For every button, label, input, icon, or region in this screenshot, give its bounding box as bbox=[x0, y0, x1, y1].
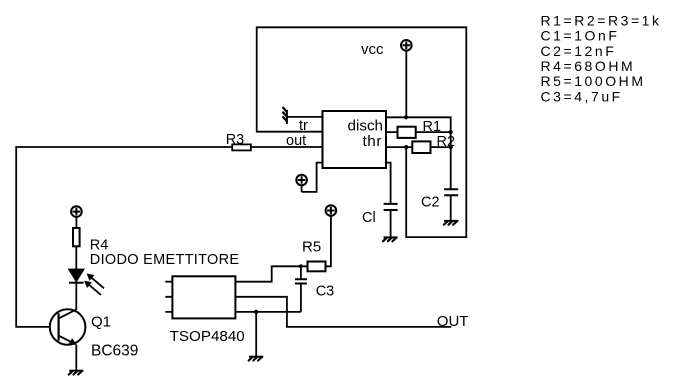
svg-text:R5=100OHM: R5=100OHM bbox=[541, 73, 646, 89]
svg-text:TSOP4840: TSOP4840 bbox=[170, 328, 245, 345]
node junction thr bbox=[404, 145, 408, 149]
svg-text:C3=4,7uF: C3=4,7uF bbox=[541, 88, 623, 104]
wire TSOP pin3 gnd rail bbox=[235, 311, 301, 313]
ground rotated (tr stub) bbox=[283, 108, 287, 124]
resistor R3 bbox=[232, 144, 251, 150]
node junction pin3 gnd bbox=[254, 310, 258, 314]
svg-text:C2: C2 bbox=[421, 195, 440, 211]
wire R3 to Q1 base bbox=[16, 147, 232, 327]
svg-text:vcc: vcc bbox=[361, 41, 384, 58]
wire thr to R2 bbox=[386, 146, 451, 148]
svg-text:Q1: Q1 bbox=[91, 314, 111, 331]
power vcc symbol bbox=[401, 40, 412, 117]
power plus symbol (555 vcc lower) bbox=[296, 175, 307, 192]
wire vcc rail pin8 bbox=[386, 117, 451, 189]
values text block bbox=[541, 12, 662, 104]
TSOP4840 receiver box bbox=[172, 276, 235, 318]
svg-text:BC639: BC639 bbox=[91, 343, 138, 360]
power plus symbol (R4 top) bbox=[71, 206, 82, 228]
ground C2 bbox=[444, 221, 459, 225]
resistor R2 bbox=[412, 141, 430, 153]
wire R4 to LED bbox=[75, 246, 77, 269]
svg-text:R2: R2 bbox=[437, 134, 456, 150]
wire TSOP pin2 to OUT bbox=[235, 297, 451, 327]
svg-text:out: out bbox=[286, 133, 306, 149]
svg-text:C1=1OnF: C1=1OnF bbox=[541, 28, 620, 44]
ground Q1 emitter bbox=[69, 371, 84, 375]
ground TSOP bbox=[249, 357, 264, 361]
transistor Q1 BC639 bbox=[50, 309, 86, 370]
svg-text:R3: R3 bbox=[226, 132, 245, 148]
capacitor C1 bbox=[384, 204, 398, 237]
wire disch to R1 bbox=[386, 131, 451, 133]
wire outer loop (tr to thr net) bbox=[257, 27, 467, 237]
svg-text:disch: disch bbox=[348, 118, 383, 135]
wire gnd stub bbox=[255, 312, 257, 357]
svg-text:R1: R1 bbox=[423, 119, 442, 135]
LED D1 diode bbox=[69, 269, 84, 309]
svg-text:R1=R2=R3=1k: R1=R2=R3=1k bbox=[541, 12, 662, 28]
svg-text:R4=68OHM: R4=68OHM bbox=[541, 58, 636, 74]
LED emission arrows bbox=[84, 274, 104, 296]
ground C1 bbox=[383, 237, 398, 241]
wire IC bottom-left pin to plus supply bbox=[302, 163, 323, 192]
svg-text:C2=12nF: C2=12nF bbox=[541, 43, 617, 59]
node junction vcc/pin8 bbox=[404, 115, 408, 119]
node junction R2 right bbox=[449, 145, 453, 149]
resistor R5 bbox=[308, 262, 326, 272]
node junction R5/C3 bbox=[299, 264, 303, 268]
resistor R4 bbox=[73, 228, 80, 246]
svg-text:tr: tr bbox=[299, 118, 308, 134]
TSOP left pin stubs bbox=[165, 282, 172, 312]
wire R5 to plus bbox=[326, 216, 331, 266]
capacitor C3 bbox=[295, 266, 307, 312]
svg-text:R5: R5 bbox=[302, 239, 321, 256]
svg-text:C3: C3 bbox=[316, 284, 335, 300]
node junction R1 right bbox=[449, 130, 453, 134]
resistor R1 bbox=[398, 127, 416, 138]
svg-text:OUT: OUT bbox=[437, 313, 469, 330]
capacitor C2 bbox=[444, 189, 458, 220]
wire IC bottom-right pin to C1 bbox=[386, 163, 391, 204]
svg-text:DIODO EMETTITORE: DIODO EMETTITORE bbox=[90, 252, 240, 268]
svg-text:thr: thr bbox=[362, 133, 382, 150]
power plus symbol (R5 top) bbox=[326, 205, 337, 216]
wire out pin to R3 bbox=[251, 146, 323, 148]
IC U1 555 box bbox=[323, 111, 387, 168]
wire IC gnd pin to reset stub bbox=[287, 116, 322, 118]
wire TSOP pin1 to R5 bbox=[235, 266, 307, 281]
svg-text:Cl: Cl bbox=[362, 210, 376, 226]
